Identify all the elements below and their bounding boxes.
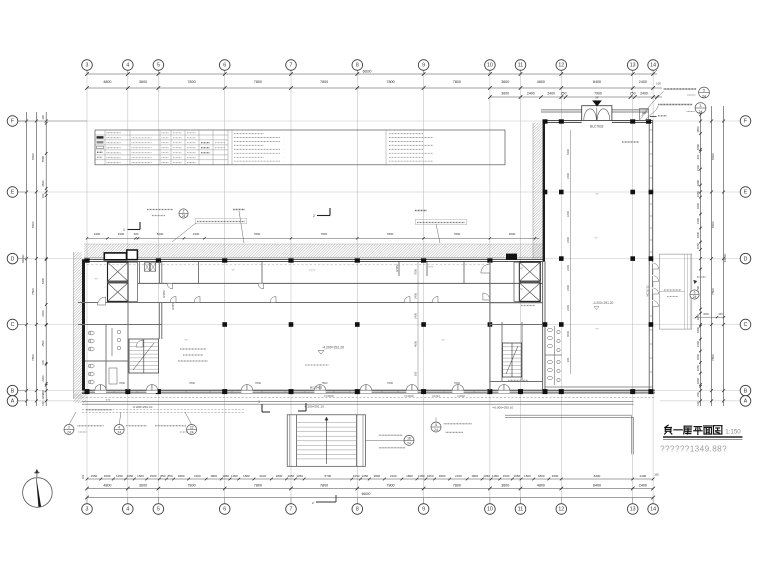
svg-text:7800: 7800 — [386, 483, 394, 487]
svg-text:13: 13 — [630, 63, 636, 69]
svg-text:4800: 4800 — [103, 80, 111, 84]
svg-text:13: 13 — [630, 507, 636, 513]
svg-text:??: ?? — [595, 327, 599, 331]
svg-text:250: 250 — [561, 92, 567, 96]
svg-text:100: 100 — [41, 401, 45, 406]
svg-text:1050: 1050 — [362, 474, 369, 478]
svg-text:??: ?? — [594, 236, 598, 240]
svg-text:100: 100 — [41, 360, 45, 365]
svg-text:24: 24 — [699, 110, 703, 114]
svg-text:7800: 7800 — [321, 381, 328, 385]
svg-text:5400: 5400 — [41, 277, 45, 284]
svg-text:4: 4 — [126, 507, 129, 513]
svg-text:6: 6 — [223, 507, 226, 513]
svg-text:1880: 1880 — [696, 179, 700, 186]
svg-text:3600: 3600 — [501, 92, 509, 96]
svg-text:7800: 7800 — [187, 483, 195, 487]
svg-text:1: 1 — [258, 400, 260, 404]
svg-text:7800: 7800 — [119, 381, 126, 385]
svg-text:24: 24 — [702, 94, 706, 98]
svg-text:1500: 1500 — [150, 474, 157, 478]
svg-text:1880: 1880 — [696, 143, 700, 150]
svg-text:7800: 7800 — [189, 381, 196, 385]
svg-text:4600: 4600 — [413, 341, 417, 347]
svg-text:1800: 1800 — [566, 211, 570, 217]
svg-text:16: 16 — [407, 437, 411, 441]
svg-text:3300: 3300 — [118, 232, 125, 236]
svg-text:8400: 8400 — [31, 153, 35, 160]
svg-text:100: 100 — [81, 474, 85, 479]
svg-text:-4.200=291.20: -4.200=291.20 — [593, 301, 614, 305]
svg-text:10: 10 — [487, 507, 493, 513]
svg-text:7: 7 — [290, 507, 293, 513]
svg-text:D: D — [11, 256, 15, 262]
svg-text:1050: 1050 — [127, 474, 134, 478]
svg-text:5580: 5580 — [41, 155, 45, 162]
svg-text:22: 22 — [190, 426, 194, 430]
svg-text:1500: 1500 — [552, 474, 559, 478]
svg-text:2400: 2400 — [41, 310, 45, 317]
svg-text:3600: 3600 — [501, 483, 509, 487]
svg-text:1500: 1500 — [104, 474, 111, 478]
svg-text:7800: 7800 — [31, 221, 35, 228]
svg-text:2400: 2400 — [566, 305, 570, 311]
svg-text:8400: 8400 — [594, 474, 601, 478]
svg-text:z: z — [312, 501, 314, 505]
svg-text:1#: 1# — [519, 266, 523, 270]
svg-text:2400: 2400 — [639, 80, 647, 84]
svg-text:11: 11 — [518, 507, 523, 513]
svg-text:1050: 1050 — [696, 190, 700, 197]
svg-text:2100: 2100 — [390, 474, 397, 478]
svg-text:1800: 1800 — [210, 474, 217, 478]
svg-text:7800: 7800 — [453, 80, 461, 84]
svg-text:4800: 4800 — [537, 483, 545, 487]
svg-text:1800: 1800 — [243, 474, 250, 478]
svg-text:2100: 2100 — [455, 474, 462, 478]
svg-text:1800: 1800 — [406, 474, 413, 478]
svg-text:10: 10 — [487, 63, 493, 69]
svg-text:2820: 2820 — [41, 180, 45, 187]
svg-text:5700: 5700 — [325, 474, 332, 478]
svg-text:3: 3 — [86, 507, 89, 513]
svg-text:100: 100 — [41, 193, 45, 198]
svg-text:4: 4 — [126, 63, 129, 69]
svg-text:8400: 8400 — [593, 483, 601, 487]
svg-text:7800: 7800 — [254, 483, 262, 487]
svg-text:MC15723: MC15723 — [645, 285, 649, 297]
svg-text:100: 100 — [656, 82, 661, 86]
svg-text:2100: 2100 — [194, 474, 201, 478]
svg-text:C: C — [744, 322, 748, 328]
svg-text:??: ?? — [595, 192, 599, 196]
svg-text:F: F — [11, 119, 14, 125]
svg-text:6: 6 — [223, 63, 226, 69]
svg-text:8400: 8400 — [711, 153, 715, 160]
svg-text:1800: 1800 — [439, 474, 446, 478]
svg-text:C: C — [11, 322, 15, 328]
svg-text:7800: 7800 — [254, 80, 262, 84]
svg-text:3600: 3600 — [501, 80, 509, 84]
svg-text:BLC7633: BLC7633 — [590, 124, 604, 128]
svg-text:250: 250 — [630, 92, 636, 96]
svg-text:2400: 2400 — [566, 265, 570, 271]
svg-text:1800: 1800 — [178, 474, 185, 478]
svg-text:300: 300 — [718, 312, 723, 316]
svg-text:7800: 7800 — [711, 288, 715, 295]
svg-text:3600: 3600 — [703, 312, 709, 316]
svg-text:3600: 3600 — [509, 232, 516, 236]
svg-text:8: 8 — [356, 63, 359, 69]
svg-text:33000: 33000 — [21, 254, 25, 263]
svg-text:7800: 7800 — [454, 381, 461, 385]
svg-text:4800: 4800 — [537, 80, 545, 84]
svg-text:100: 100 — [696, 401, 700, 406]
svg-text:??: ?? — [94, 277, 98, 281]
svg-text:1500: 1500 — [137, 474, 144, 478]
svg-text:12: 12 — [558, 63, 564, 69]
svg-text:??: ?? — [184, 338, 188, 342]
svg-text:1800: 1800 — [276, 474, 283, 478]
svg-text:1050: 1050 — [353, 474, 360, 478]
svg-text:850: 850 — [167, 474, 172, 478]
svg-text:7800: 7800 — [386, 80, 394, 84]
svg-text:3: 3 — [86, 63, 89, 69]
svg-text:-0.200=291.10: -0.200=291.10 — [132, 405, 152, 409]
svg-text:66600: 66600 — [363, 69, 372, 73]
svg-text:1800: 1800 — [538, 474, 545, 478]
svg-text:1800: 1800 — [373, 474, 380, 478]
svg-text:7800: 7800 — [31, 354, 35, 361]
svg-text:2#: 2# — [519, 287, 523, 291]
svg-text:1050: 1050 — [231, 474, 238, 478]
svg-text:1200: 1200 — [41, 393, 45, 400]
svg-text:1800: 1800 — [471, 474, 478, 478]
svg-text:2400: 2400 — [640, 92, 648, 96]
svg-text:8400: 8400 — [593, 80, 601, 84]
svg-text:14: 14 — [650, 507, 656, 513]
svg-text:1500: 1500 — [503, 474, 510, 478]
svg-text:24: 24 — [434, 428, 438, 432]
svg-text:1050: 1050 — [696, 364, 700, 371]
svg-text:1050: 1050 — [427, 474, 434, 478]
svg-text:2400: 2400 — [527, 92, 535, 96]
svg-text:E: E — [744, 190, 748, 196]
svg-text:1500: 1500 — [524, 474, 531, 478]
svg-text:2100: 2100 — [696, 217, 700, 224]
svg-text:24: 24 — [182, 214, 186, 218]
svg-text:1800: 1800 — [696, 231, 700, 238]
svg-text:5: 5 — [703, 89, 705, 93]
svg-text:E: E — [11, 190, 15, 196]
svg-text:100: 100 — [642, 112, 647, 115]
svg-text:66600: 66600 — [362, 492, 371, 496]
svg-text:=0.000=293.10: =0.000=293.10 — [492, 405, 513, 409]
svg-text:3: 3 — [700, 104, 702, 108]
svg-text:100: 100 — [41, 115, 45, 120]
svg-text:300: 300 — [134, 232, 139, 236]
svg-text:7800: 7800 — [387, 232, 394, 236]
svg-text:3600: 3600 — [139, 483, 147, 487]
svg-text:??????1349.88?: ??????1349.88? — [660, 445, 727, 454]
svg-text:7800: 7800 — [453, 483, 461, 487]
svg-text:7800: 7800 — [320, 80, 328, 84]
svg-text:33000: 33000 — [723, 253, 727, 262]
svg-text:850: 850 — [160, 474, 165, 478]
svg-text:2400: 2400 — [413, 313, 417, 319]
svg-text:2100: 2100 — [259, 474, 266, 478]
svg-text:7800: 7800 — [387, 381, 394, 385]
svg-text:3600: 3600 — [139, 80, 147, 84]
svg-text:1050: 1050 — [483, 474, 490, 478]
svg-text:2400: 2400 — [566, 285, 570, 291]
svg-text:1850: 1850 — [696, 126, 700, 133]
svg-text:2: 2 — [313, 214, 315, 218]
svg-text:2400: 2400 — [193, 232, 200, 236]
svg-text:24: 24 — [407, 441, 411, 445]
svg-text:9: 9 — [422, 507, 425, 513]
svg-text:5: 5 — [435, 423, 437, 427]
svg-text:1050: 1050 — [288, 474, 295, 478]
svg-text:7800: 7800 — [454, 232, 461, 236]
svg-text:1650: 1650 — [91, 474, 98, 478]
svg-text:7800: 7800 — [320, 483, 328, 487]
svg-text:D: D — [744, 256, 748, 262]
svg-text:2400: 2400 — [566, 237, 570, 243]
svg-text:5: 5 — [157, 63, 160, 69]
svg-text:7: 7 — [290, 63, 293, 69]
svg-text:7900: 7900 — [594, 92, 602, 96]
svg-text:9: 9 — [422, 63, 425, 69]
svg-text:MC15453: MC15453 — [310, 385, 323, 389]
svg-text:4600: 4600 — [566, 331, 570, 337]
svg-text:4800: 4800 — [103, 483, 111, 487]
svg-text:24: 24 — [190, 430, 194, 434]
svg-text:11: 11 — [518, 63, 523, 69]
svg-text:8: 8 — [356, 507, 359, 513]
svg-text:????: ???? — [427, 265, 434, 269]
svg-text:W1650: W1650 — [163, 289, 166, 298]
svg-text:2300: 2300 — [41, 375, 45, 382]
svg-text:4: 4 — [118, 426, 120, 430]
svg-text:2: 2 — [183, 210, 185, 214]
svg-text:200: 200 — [696, 154, 700, 159]
svg-text:1050: 1050 — [418, 474, 425, 478]
svg-text:2400: 2400 — [639, 483, 647, 487]
svg-text:2: 2 — [68, 426, 70, 430]
svg-text:1050: 1050 — [513, 474, 520, 478]
svg-text:????: ???? — [309, 269, 316, 273]
svg-text:1050: 1050 — [222, 474, 229, 478]
svg-text:7800: 7800 — [711, 354, 715, 361]
svg-text:2400: 2400 — [94, 232, 101, 236]
svg-text:24: 24 — [693, 295, 697, 299]
svg-text:F: F — [744, 119, 747, 125]
svg-text:B: B — [744, 388, 748, 394]
svg-text:7800: 7800 — [187, 80, 195, 84]
svg-text:1050: 1050 — [492, 474, 499, 478]
svg-text:1800: 1800 — [696, 377, 700, 384]
svg-text:A: A — [11, 399, 15, 405]
svg-text:100: 100 — [654, 473, 659, 477]
svg-text:5: 5 — [157, 507, 160, 513]
svg-text:24: 24 — [117, 430, 121, 434]
svg-text:1050: 1050 — [296, 474, 303, 478]
svg-text:1800: 1800 — [696, 202, 700, 209]
svg-text:7000: 7000 — [413, 269, 417, 275]
svg-text:14: 14 — [650, 63, 656, 69]
svg-text:4500: 4500 — [41, 340, 45, 347]
svg-text:W1650: W1650 — [172, 301, 175, 310]
svg-text:300: 300 — [413, 371, 417, 376]
svg-text:??: ?? — [231, 268, 235, 272]
svg-text:XF: XF — [595, 96, 599, 100]
svg-text:2400: 2400 — [413, 293, 417, 299]
svg-text:300: 300 — [566, 357, 570, 362]
svg-text:5400: 5400 — [157, 232, 164, 236]
svg-text:A: A — [744, 399, 748, 405]
svg-text:??: ?? — [441, 338, 445, 342]
svg-text:1800: 1800 — [696, 353, 700, 360]
svg-text:2400: 2400 — [547, 92, 555, 96]
svg-text:1450: 1450 — [116, 474, 123, 478]
svg-text:B: B — [11, 388, 15, 394]
svg-text:7800: 7800 — [321, 232, 328, 236]
svg-text:200: 200 — [696, 392, 700, 397]
svg-text:1:150: 1:150 — [725, 429, 741, 436]
svg-text:24: 24 — [67, 430, 71, 434]
svg-text:2400: 2400 — [566, 173, 570, 179]
svg-text:7800: 7800 — [31, 288, 35, 295]
svg-text:6: 6 — [694, 291, 696, 295]
svg-text:2100: 2100 — [696, 340, 700, 347]
svg-text:7800: 7800 — [255, 381, 262, 385]
svg-text:12: 12 — [558, 507, 564, 513]
svg-text:5400: 5400 — [566, 149, 570, 155]
svg-text:2400: 2400 — [640, 474, 647, 478]
svg-text:-4.200=291.10: -4.200=291.10 — [304, 404, 324, 408]
svg-text:7800: 7800 — [711, 221, 715, 228]
svg-text:7800: 7800 — [254, 232, 261, 236]
svg-text:-4.200=291.20: -4.200=291.20 — [322, 346, 344, 350]
